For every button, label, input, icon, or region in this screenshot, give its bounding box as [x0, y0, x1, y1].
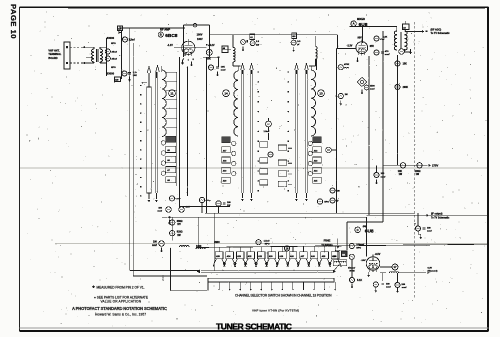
svg-text:90V: 90V: [358, 37, 363, 40]
svg-text:33000: 33000: [107, 72, 115, 76]
capacitor C17 0.6mmf: [349, 243, 354, 248]
fine tuning coil A17: [392, 264, 398, 270]
svg-text:100V: 100V: [197, 33, 203, 36]
tube V1A RF amplifier: [182, 41, 195, 54]
border frame bottom: [19, 327, 488, 329]
svg-text:PAGE 10: PAGE 10: [9, 4, 18, 39]
contact dots bank3: [288, 71, 290, 73]
switch wafer bar: [208, 278, 334, 282]
wire mixer plate down: [368, 56, 370, 215]
svg-text:NPO: NPO: [324, 201, 329, 203]
antenna coil bank1: [162, 70, 167, 137]
svg-text:MIXER: MIXER: [357, 18, 365, 21]
capacitor C10 trimmer: [291, 40, 296, 45]
capacitor C6: [122, 71, 127, 76]
wire lower feed: [133, 275, 207, 277]
svg-text:mmf: mmf: [370, 89, 375, 91]
svg-text:A3: A3: [403, 26, 405, 29]
svg-text:2.2K: 2.2K: [383, 36, 388, 38]
ground C21: [168, 219, 170, 222]
ground C7: [242, 46, 244, 49]
svg-text:A18: A18: [223, 160, 226, 163]
contact dots bank2: [258, 71, 260, 73]
svg-text:MEASURED FROM PIN 2 OF V1.: MEASURED FROM PIN 2 OF V1.: [97, 286, 145, 290]
tube V2B oscillator: [366, 257, 380, 271]
svg-text:A: A: [353, 22, 355, 26]
interstage coil L2: [232, 35, 234, 48]
wire AGC vertical bus: [129, 28, 131, 270]
ground cathode V1: [182, 59, 184, 62]
capacitor C25 NPO: [317, 199, 322, 204]
filament choke L6: [390, 272, 399, 273]
balun transformer T1: [93, 47, 95, 49]
svg-text:275V: 275V: [432, 164, 438, 168]
svg-text:C: C: [357, 228, 359, 232]
channel selector wiper line: [201, 270, 334, 272]
svg-text:33mmf: 33mmf: [348, 268, 355, 270]
resistor R12 100 1W: [417, 163, 422, 168]
ground C16: [420, 234, 422, 237]
resistor R18 180 1W: [216, 201, 221, 206]
wire plate supply vertical: [382, 31, 384, 165]
svg-text:To TV Schematic: To TV Schematic: [431, 32, 451, 35]
svg-text:8: 8: [193, 59, 194, 61]
wire B+ vertical: [397, 55, 399, 165]
svg-text:A PHOTOFACT STANDARD NOTATION: A PHOTOFACT STANDARD NOTATION SCHEMATIC: [72, 306, 167, 311]
svg-text:65V: 65V: [370, 46, 375, 48]
wiper arrow bank1 left: [148, 73, 150, 87]
resistor R7 2.2K: [374, 36, 379, 41]
svg-text:1M: 1M: [345, 94, 348, 96]
svg-text:100V: 100V: [197, 38, 203, 41]
page crease line 2: [55, 243, 487, 245]
capacitor C23: [268, 152, 273, 157]
capacitor C24: [326, 147, 332, 153]
resistor R14 5.1K: [351, 259, 353, 277]
capacitor C20 180mmf: [397, 273, 399, 282]
svg-text:mmf: mmf: [221, 70, 226, 72]
switch rail bank1: [154, 72, 156, 193]
coil segment number 11: [169, 90, 176, 97]
svg-text:1.5mf: 1.5mf: [264, 131, 270, 133]
svg-text:mmf: mmf: [402, 287, 407, 289]
coil junction circles bank2: [232, 141, 236, 145]
ground C10: [293, 47, 295, 50]
svg-text:mmf: mmf: [385, 54, 390, 56]
arrow 275V: [429, 164, 431, 167]
capacitor C27: [330, 198, 335, 203]
wire antenna to transformer bottom: [70, 62, 84, 64]
node +4.2V: [206, 44, 208, 46]
svg-text:680Ω: 680Ω: [177, 221, 183, 223]
tube designator V2A 6U8: [351, 21, 356, 26]
svg-text:11: 11: [170, 91, 174, 95]
capacitor C18: [349, 254, 354, 259]
svg-text:mmf: mmf: [427, 230, 432, 232]
wire RF screen feed: [203, 56, 219, 58]
svg-text:CHANNEL SELECTOR SWITCH SHOWN: CHANNEL SELECTOR SWITCH SHOWN IN CHANNEL…: [235, 294, 332, 298]
svg-text:NPO: NPO: [356, 247, 361, 249]
svg-text:22f: 22f: [256, 44, 259, 46]
oscillator coil L3: [315, 36, 317, 47]
svg-text:TUNER SCHEMATIC: TUNER SCHEMATIC: [216, 322, 292, 332]
tuning slug bank1: [147, 87, 151, 193]
svg-text:-10V: -10V: [361, 260, 366, 262]
resistor R6 1M: [338, 93, 343, 98]
svg-text:NPO: NPO: [111, 67, 116, 69]
coil segment number 13: [318, 90, 325, 97]
capacitor C5 1.5mf: [122, 37, 127, 42]
wire wafer to fine tuning: [334, 264, 340, 271]
svg-text:(IF output): (IF output): [431, 212, 443, 215]
wire osc plate to coil 17: [380, 266, 392, 268]
svg-text:A19: A19: [223, 170, 226, 173]
svg-text:A10: A10: [292, 35, 295, 38]
svg-text:10K: 10K: [398, 171, 403, 173]
test point M1: [357, 78, 366, 87]
wire B+ 275V line: [383, 164, 428, 166]
svg-text:TERMINAL: TERMINAL: [48, 53, 61, 56]
svg-text:6BC8: 6BC8: [165, 33, 178, 39]
svg-text:Howard W. Sams & Co., Inc. 195: Howard W. Sams & Co., Inc. 1957: [95, 312, 146, 316]
svg-text:6.3V: 6.3V: [428, 268, 433, 270]
wire mixer top bus: [350, 26, 397, 28]
resistor R9 200K: [395, 84, 400, 89]
wire osc plate vertical: [366, 217, 368, 256]
capacitor C9 10K: [208, 65, 213, 70]
svg-text:BOARD: BOARD: [48, 57, 57, 60]
svg-text:mmf: mmf: [157, 210, 162, 212]
wire grid return vertical: [336, 49, 338, 214]
wire IF bus upper: [205, 212, 415, 214]
tube designator V2B 6U8 OSC: [355, 227, 361, 233]
svg-text:A22: A22: [314, 149, 317, 152]
svg-text:To TV Schematic: To TV Schematic: [431, 217, 450, 220]
wire input top bus: [120, 27, 185, 29]
capacitor C13 1500mmf: [364, 85, 369, 90]
switch rails bank3: [294, 70, 296, 193]
svg-text:-2.3V: -2.3V: [347, 45, 353, 48]
svg-text:(55): (55): [363, 226, 367, 228]
ground mixer cathode: [357, 57, 359, 60]
trimmer A2: [250, 34, 255, 40]
capacitor C19 180mmf: [382, 273, 384, 281]
svg-text:3900: 3900: [215, 242, 221, 244]
svg-text:-1.1V: -1.1V: [167, 44, 173, 47]
wire left feed to wiper: [130, 269, 199, 271]
svg-text:40K: 40K: [186, 205, 190, 208]
coil A26: [118, 26, 123, 31]
svg-text:A23: A23: [314, 160, 317, 163]
svg-text:A20: A20: [223, 180, 226, 183]
tube V2A mixer: [356, 42, 368, 54]
fine tuning capacitor: [337, 239, 339, 246]
svg-text:5.1K: 5.1K: [357, 279, 362, 282]
svg-text:VHF ANT.: VHF ANT.: [48, 50, 59, 53]
wire bank3 top: [316, 59, 318, 70]
svg-text:820Ω: 820Ω: [177, 232, 183, 234]
ground R14: [351, 283, 353, 286]
wire RF plate bus: [210, 34, 338, 36]
wire antenna to transformer top: [70, 46, 84, 48]
junction node: [168, 216, 170, 218]
svg-text:RF AMP: RF AMP: [160, 27, 170, 31]
terminal board: [64, 42, 70, 69]
svg-text:6U8: 6U8: [359, 22, 368, 28]
svg-text:7: 7: [183, 59, 184, 61]
svg-text:B: B: [160, 33, 162, 37]
wire through RF tube: [174, 47, 207, 49]
wire screen vertical: [206, 57, 208, 213]
svg-text:470K: 470K: [344, 63, 350, 66]
footnote measured: [92, 285, 95, 288]
coil segment number 14: [223, 90, 230, 97]
ground R6: [340, 100, 342, 103]
ground test point: [361, 89, 363, 92]
page crease line: [20, 167, 487, 169]
svg-text:(filament): (filament): [428, 270, 438, 273]
resistor R16 40K: [179, 207, 185, 213]
border frame right: [487, 7, 489, 331]
capacitor C8 trimmer: [250, 41, 255, 46]
resistor R5 470K: [338, 65, 343, 70]
ground shield V1: [191, 61, 193, 64]
svg-text:A25: A25: [314, 180, 317, 183]
svg-text:A31: A31: [342, 253, 345, 256]
resistor R15: [169, 196, 174, 201]
svg-text:14: 14: [224, 91, 228, 95]
wire bus to channel bus: [197, 217, 199, 247]
channel coil boxes: [215, 252, 223, 259]
wire bank1 taps: [176, 72, 178, 186]
capacitor C2: [105, 49, 110, 54]
svg-text:10K: 10K: [221, 66, 225, 68]
ground at balun: [86, 56, 91, 58]
wire bus to wiper: [213, 213, 215, 270]
svg-text:1.5mf: 1.5mf: [264, 240, 270, 242]
ground osc cathode: [368, 272, 370, 275]
wire input column right rail: [121, 31, 123, 80]
svg-text:A2: A2: [250, 36, 252, 39]
capacitor C3: [105, 56, 110, 61]
wire B- vertical: [132, 43, 134, 276]
padder boxes column A: [260, 142, 268, 147]
svg-text:13: 13: [319, 91, 323, 95]
coil 16: [284, 246, 289, 251]
rf coil bank3: [311, 70, 315, 136]
wire cathode V1 down: [187, 67, 189, 197]
wire B+ to oscillator: [382, 165, 384, 222]
coil boxes bank1: [166, 136, 176, 142]
svg-text:17: 17: [393, 265, 397, 269]
svg-text:VHF tuner VT-8N (For KVT67M): VHF tuner VT-8N (For KVT67M): [252, 308, 299, 312]
wire bottom link: [179, 206, 230, 208]
coil junction circles bank1: [161, 141, 165, 145]
wire filament line: [380, 272, 386, 274]
ground C9: [217, 71, 219, 74]
border frame left: [18, 7, 20, 331]
ground transformer: [410, 49, 412, 52]
svg-text:10K: 10K: [206, 57, 211, 60]
resistor R11 10K 1W: [400, 163, 405, 168]
interstage shield dashed line: [414, 22, 416, 298]
tube designator V1 6BC8: [158, 32, 163, 37]
coil boxes bank3: [313, 137, 322, 143]
capacitor C16 180mmf: [417, 213, 419, 226]
oscillator coil L5: [333, 260, 347, 266]
oscillator transformer T2: [396, 27, 398, 33]
contact dots bank1: [140, 85, 142, 87]
svg-text:33000: 33000: [107, 36, 115, 40]
ground C20: [397, 288, 399, 291]
capacitor C7: [241, 40, 246, 45]
svg-text:1: 1: [188, 60, 189, 62]
resistor R17 470K: [199, 197, 204, 202]
ground C29: [161, 247, 163, 250]
svg-text:NPO: NPO: [111, 43, 116, 45]
svg-text:-8.5V: -8.5V: [375, 253, 381, 256]
coil boxes bank2: [222, 137, 231, 143]
wire RF AGC to TV chassis: [405, 31, 424, 33]
input network rail: [106, 38, 108, 76]
terminal E1: [66, 46, 68, 48]
svg-text:A17: A17: [223, 149, 226, 152]
coil L7: [180, 246, 190, 247]
coil A8 box: [222, 46, 228, 53]
shield box RF tube: [183, 25, 185, 57]
resistor R3 10K: [206, 49, 212, 55]
capacitor C26 180mmf osc feed: [330, 188, 335, 193]
wire mixer grid left: [337, 48, 357, 50]
coil A31 box: [342, 251, 348, 257]
coil A3 box: [403, 24, 410, 30]
resistor R8 15K: [395, 61, 400, 66]
capacitor F1: [399, 49, 404, 54]
svg-text:+4.2V: +4.2V: [208, 44, 215, 47]
wafer contact stubs: [218, 282, 220, 289]
resistor R21 680 1W: [170, 220, 175, 225]
svg-text:15K: 15K: [403, 64, 408, 66]
capacitor C15 100mmf: [376, 165, 378, 172]
svg-text:200K: 200K: [403, 87, 409, 89]
border frame top: [19, 6, 488, 8]
wire resistor ladder: [171, 217, 173, 240]
svg-text:100Ω: 100Ω: [415, 171, 421, 173]
capacitor C28 1.5mf NPO: [256, 240, 261, 245]
capacitor C12 470mmf: [374, 50, 379, 55]
wire grid V1 down: [179, 57, 181, 207]
coil A29: [115, 77, 121, 82]
ground input network: [129, 76, 131, 79]
switch rails bank2: [240, 70, 242, 193]
padder boxes column B: [278, 145, 286, 150]
svg-text:A8: A8: [223, 47, 225, 50]
wire channel selector bus: [196, 244, 488, 247]
wire mixer tube top stub: [362, 27, 364, 44]
oscillator coil bank2: [234, 71, 238, 136]
wire IF output: [367, 214, 488, 216]
svg-text:.05mf: .05mf: [111, 58, 117, 60]
resistor R20 2000 vertical: [170, 248, 172, 291]
wire bus down to mixer grid: [337, 35, 339, 49]
resistor R22 820 1W: [170, 231, 175, 236]
wire tick arrow: [143, 82, 148, 84]
capacitor C22 1.5mf: [266, 121, 272, 127]
ground C15: [376, 179, 378, 182]
ground C19: [375, 287, 377, 290]
coil junction circles bank3: [308, 141, 312, 145]
svg-text:A29: A29: [115, 79, 118, 82]
svg-text:pf: pf: [297, 44, 299, 46]
wire balun to input network: [100, 46, 107, 48]
svg-text:2000: 2000: [161, 275, 165, 281]
wire IF bus lower: [162, 216, 367, 218]
trimmer A10: [292, 33, 297, 39]
svg-text:mmf: mmf: [152, 245, 157, 247]
svg-text:mmf: mmf: [386, 286, 391, 288]
terminal E2: [66, 62, 68, 64]
